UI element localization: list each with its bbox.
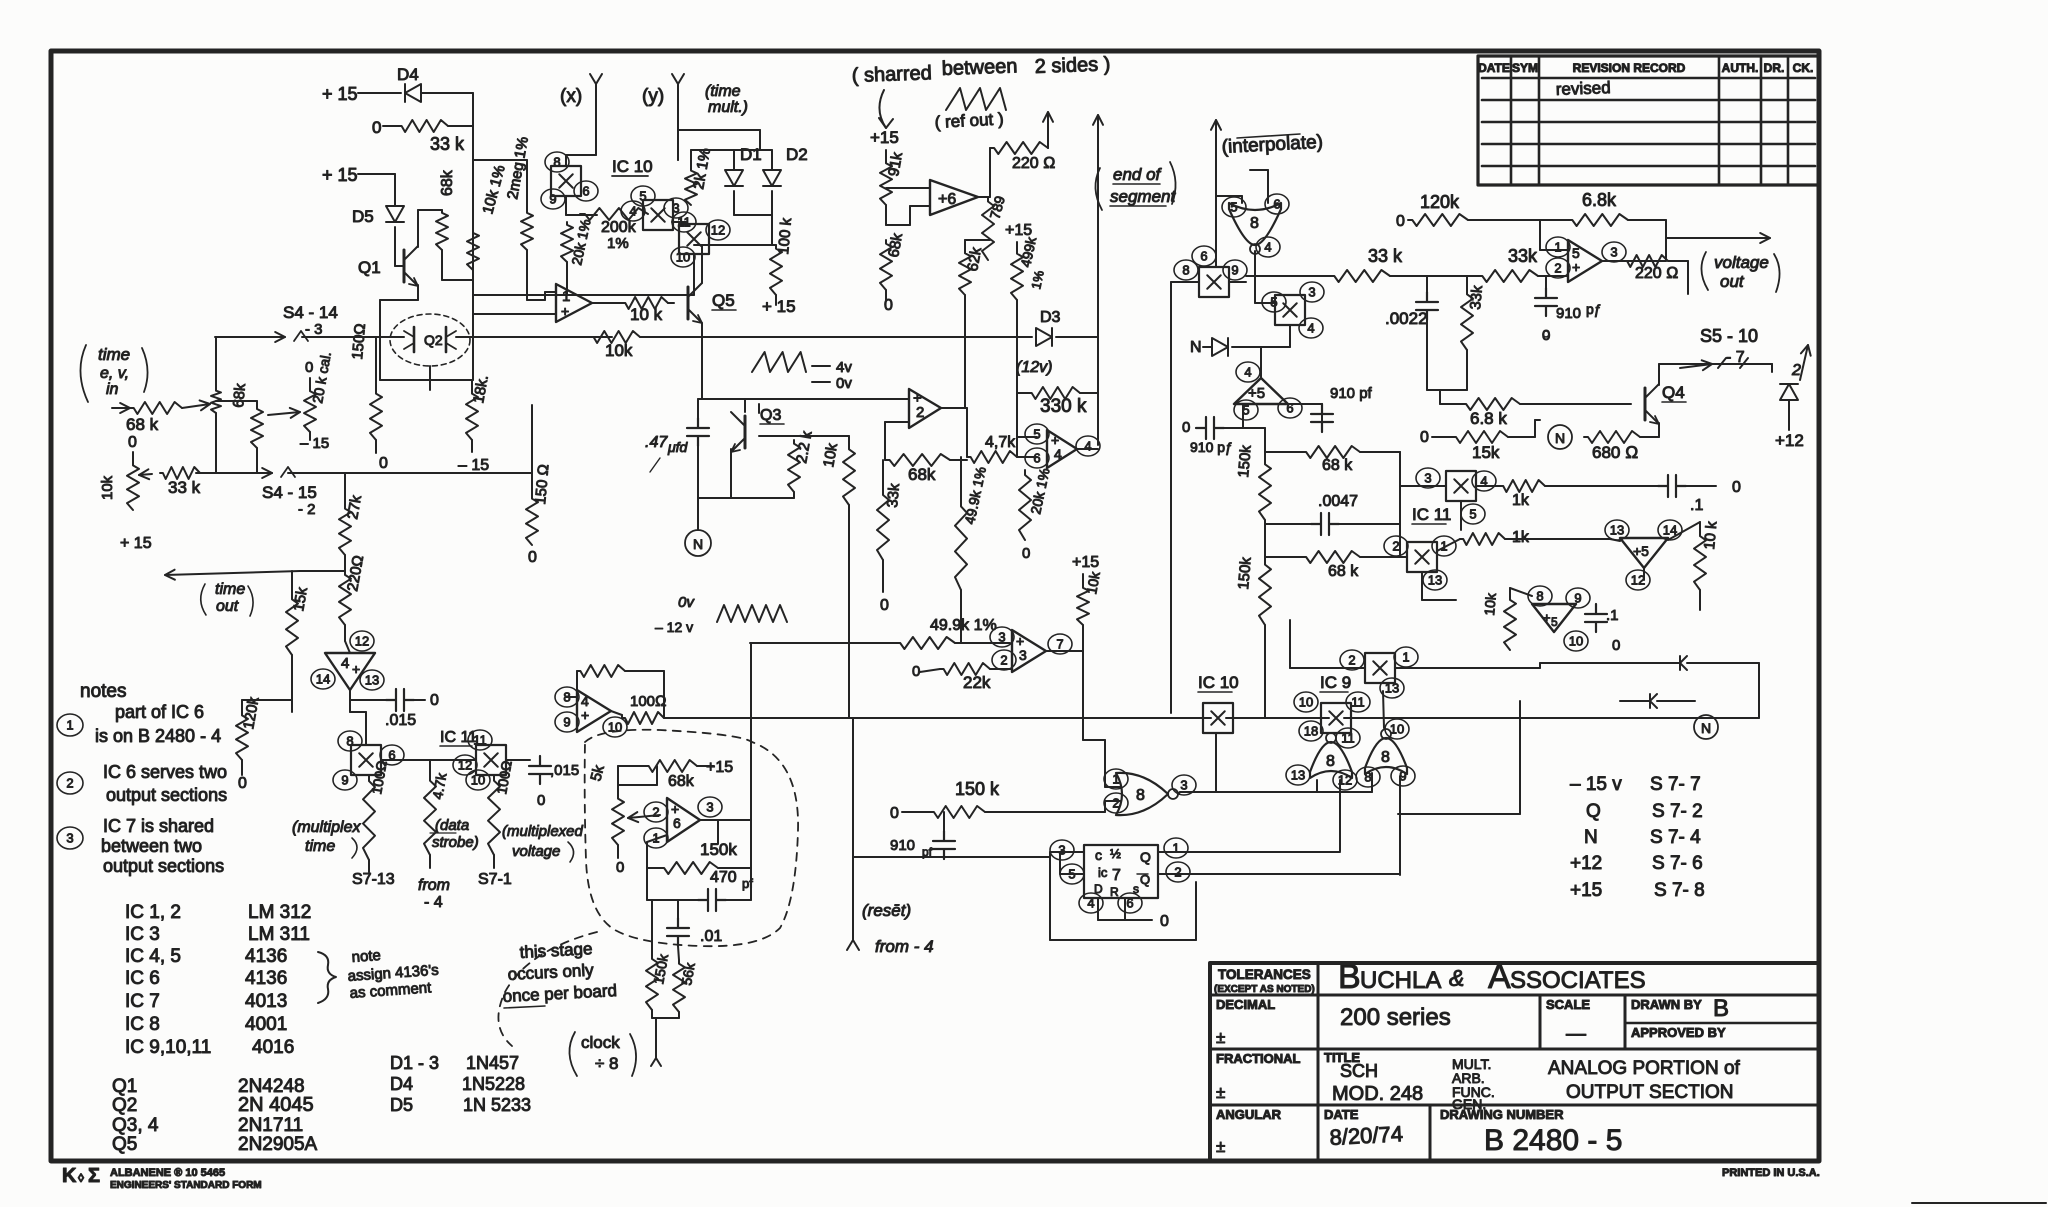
svg-text:pf: pf — [922, 845, 933, 859]
svg-text:+: + — [352, 661, 360, 677]
sawtooth 0v -12v icon — [717, 605, 787, 622]
svg-text:910: 910 — [890, 837, 915, 854]
svg-text:+ 15: + 15 — [322, 165, 358, 185]
svg-text:12: 12 — [711, 223, 725, 238]
svg-text:IC 6 serves two: IC 6 serves two — [103, 762, 227, 782]
cap 910pf (ff) — [933, 831, 955, 859]
svg-text:9: 9 — [563, 715, 570, 730]
svg-text:150 Ω: 150 Ω — [532, 464, 552, 506]
svg-text:÷ 8: ÷ 8 — [595, 1054, 619, 1073]
op-amp +6 (ref) — [930, 180, 978, 215]
svg-text:14: 14 — [316, 672, 330, 687]
svg-text:1k: 1k — [1512, 492, 1530, 509]
svg-text:±: ± — [1216, 1137, 1225, 1156]
svg-text:2: 2 — [1348, 653, 1355, 668]
multiplier box r3 — [1340, 650, 1364, 670]
svg-text:this stage: this stage — [519, 939, 593, 962]
svg-text:910: 910 — [1556, 305, 1581, 322]
resistor 200k 1% — [580, 208, 648, 220]
svg-text:11: 11 — [1341, 731, 1355, 746]
svg-text:LM 311: LM 311 — [248, 924, 310, 945]
sawtooth 4v 0v icon — [752, 352, 806, 372]
wire opamp5 out — [1602, 260, 1666, 262]
wires ic9 box rows — [1460, 501, 1462, 530]
resistor 10k vertical left — [127, 462, 139, 510]
revision record table — [1478, 56, 1818, 185]
svg-text:e, v,: e, v, — [100, 365, 129, 382]
svg-text:10: 10 — [676, 250, 690, 265]
svg-text:2: 2 — [916, 404, 924, 421]
svg-text:4: 4 — [629, 204, 636, 219]
resistor 20k 1pct vertical (mid) — [1019, 470, 1031, 540]
resistor 220ohm vertical — [339, 571, 351, 625]
svg-text:2: 2 — [652, 805, 659, 820]
svg-text:4001: 4001 — [245, 1014, 287, 1035]
svg-text:(EXCEPT AS NOTED): (EXCEPT AS NOTED) — [1214, 984, 1315, 995]
diode D3 on bus — [1036, 328, 1052, 346]
svg-text:1: 1 — [66, 718, 73, 733]
svg-text:mult.): mult.) — [708, 99, 748, 116]
transistor Q5 — [687, 287, 690, 319]
wire X Y to IC10 block — [677, 130, 679, 160]
svg-text:10k: 10k — [605, 341, 633, 360]
svg-text:4136: 4136 — [245, 946, 287, 967]
svg-text:0: 0 — [1420, 429, 1429, 446]
svg-text:out: out — [1720, 272, 1745, 291]
diode D2 — [763, 170, 781, 186]
svg-text:13: 13 — [1428, 573, 1442, 588]
resistor 150ohm vertical (Q2 left) — [370, 390, 382, 440]
nor gate pair a — [1299, 721, 1323, 741]
svg-text:5: 5 — [1551, 615, 1558, 629]
wire bus y399 — [698, 398, 909, 400]
svg-text:1N 5233: 1N 5233 — [463, 1095, 531, 1115]
svg-text:clock: clock — [581, 1033, 620, 1052]
svg-text:S4 - 14: S4 - 14 — [283, 303, 338, 322]
cap .47ufd — [687, 418, 709, 446]
svg-text:( sharred: ( sharred — [851, 62, 932, 87]
svg-text:S 7- 6: S 7- 6 — [1652, 853, 1703, 874]
wire D5 to Q1 — [394, 227, 396, 266]
svg-text:68k: 68k — [668, 773, 695, 790]
svg-text:7: 7 — [1056, 637, 1063, 652]
svg-text:– 15: – 15 — [458, 457, 489, 474]
svg-text:470: 470 — [710, 869, 737, 886]
wire opamp4 to xbox d — [350, 711, 366, 713]
wire Q3 emitter — [758, 404, 760, 413]
svg-text:0: 0 — [912, 663, 920, 680]
svg-text:time: time — [98, 345, 130, 364]
svg-text:IC 11: IC 11 — [440, 729, 477, 746]
svg-text:REVISION RECORD: REVISION RECORD — [1573, 61, 1686, 75]
svg-text:N: N — [1555, 430, 1565, 446]
wire right mesh verticals — [1399, 452, 1401, 557]
svg-text:D2: D2 — [786, 145, 808, 164]
svg-text:6.8k: 6.8k — [1582, 190, 1617, 210]
svg-text:11: 11 — [1351, 695, 1365, 710]
resistor 100ohm vertical e — [488, 775, 500, 855]
resistor 62k vertical — [959, 250, 971, 295]
terminal N (680) — [1548, 425, 1572, 449]
resistor 68k (osc) — [645, 760, 697, 772]
wire +15 to Q1 branch — [358, 173, 395, 175]
svg-text:15k: 15k — [1472, 443, 1500, 462]
svg-text:S4 - 15: S4 - 15 — [262, 483, 317, 502]
svg-text:pƒ: pƒ — [1586, 301, 1602, 317]
svg-text:– 12 v: – 12 v — [655, 619, 693, 635]
svg-text:100Ω: 100Ω — [630, 693, 667, 710]
svg-text:Q: Q — [1586, 801, 1601, 822]
svg-text:is on B 2480 - 4: is on B 2480 - 4 — [95, 726, 221, 746]
svg-text:+5: +5 — [1248, 385, 1265, 402]
svg-text:0: 0 — [890, 805, 899, 822]
svg-text:IC 10: IC 10 — [612, 157, 653, 176]
svg-text:.1: .1 — [1606, 607, 1619, 624]
svg-text:3: 3 — [1019, 647, 1027, 663]
svg-text:4136: 4136 — [245, 968, 287, 989]
svg-text:D3: D3 — [1040, 309, 1061, 326]
arrow up right — [1800, 345, 1808, 380]
svg-text:Q4: Q4 — [1662, 383, 1685, 402]
cap .015 (opamp4) — [350, 699, 390, 701]
svg-text:ANALOG PORTION of: ANALOG PORTION of — [1548, 1058, 1741, 1079]
svg-text:1k: 1k — [1512, 529, 1530, 546]
wire D1 D2 join — [733, 191, 735, 215]
svg-text:0: 0 — [616, 859, 624, 876]
power +15 below 100k — [775, 295, 777, 305]
svg-text:33 k: 33 k — [168, 478, 201, 497]
svg-text:2N1711: 2N1711 — [238, 1115, 303, 1136]
op-amp 2 — [909, 389, 941, 428]
svg-text:IC 9: IC 9 — [1320, 673, 1351, 692]
op-amp 4 (mid) — [1025, 424, 1049, 444]
arrow from note — [879, 90, 886, 128]
wire mid verticals — [1097, 337, 1099, 445]
wire opamp4 out down — [349, 690, 351, 712]
resistor 68k (opamp2) — [885, 454, 950, 466]
wire block top rail — [565, 155, 567, 166]
wire D4 to vertical — [358, 92, 401, 94]
multiplier box r2 — [1384, 536, 1408, 556]
svg-text:68 k: 68 k — [1328, 563, 1359, 580]
terminal N right — [1694, 715, 1718, 739]
svg-text:S 7- 8: S 7- 8 — [1654, 880, 1705, 901]
multiplier box mid — [1262, 292, 1286, 312]
svg-text:+: + — [561, 303, 569, 319]
svg-text:0: 0 — [1160, 913, 1169, 930]
svg-text:Q2: Q2 — [112, 1095, 137, 1116]
svg-text:&: & — [1449, 965, 1464, 991]
transistor Q3 — [744, 416, 747, 448]
wire gate-b input down to FF Qbar — [1399, 776, 1401, 875]
svg-text:3: 3 — [1424, 471, 1431, 486]
svg-text:S7-1: S7-1 — [478, 871, 512, 888]
svg-text:150Ω: 150Ω — [349, 323, 369, 361]
svg-text:PRINTED IN U.S.A.: PRINTED IN U.S.A. — [1722, 1167, 1820, 1179]
svg-text:DR.: DR. — [1764, 61, 1785, 75]
svg-text:+: + — [1543, 610, 1551, 625]
resistor 33k vertical (opamp2) — [877, 490, 889, 560]
svg-text:SCALE: SCALE — [1546, 997, 1590, 1012]
wire xbox d to xbox e — [381, 759, 476, 761]
svg-text:8: 8 — [1326, 753, 1335, 770]
note 3 — [57, 827, 83, 849]
op-amp +5 small — [1528, 586, 1552, 606]
resistor 10k 1% vertical — [472, 126, 474, 160]
resistor 2meg 1% vertical — [526, 160, 528, 210]
svg-text:1: 1 — [1172, 841, 1179, 856]
svg-text:(12v): (12v) — [1016, 359, 1052, 376]
multiplier IC10 box c — [679, 224, 709, 254]
svg-text:(multiplexed: (multiplexed — [502, 823, 584, 840]
resistor 220 (ref out) — [978, 196, 990, 198]
resistor 49.9k 1pct vertical — [955, 500, 967, 590]
svg-text:IC 7: IC 7 — [125, 991, 160, 1012]
svg-text:2: 2 — [1392, 539, 1399, 554]
svg-text:(time: (time — [705, 83, 741, 100]
svg-text:0: 0 — [305, 359, 313, 376]
svg-text:4016: 4016 — [252, 1037, 294, 1058]
svg-text:K: K — [62, 1165, 77, 1187]
svg-text:.01: .01 — [700, 928, 722, 945]
svg-text:B: B — [1713, 995, 1729, 1022]
resistor 150k vertical a — [1259, 460, 1271, 520]
svg-text:2N 4045: 2N 4045 — [238, 1094, 314, 1116]
svg-text:150 k: 150 k — [955, 779, 1000, 799]
svg-text:.0047: .0047 — [1318, 493, 1358, 510]
X antenna — [590, 74, 602, 100]
resistor 1k r1 — [1500, 480, 1545, 492]
svg-text:ANGULAR: ANGULAR — [1216, 1107, 1282, 1122]
svg-text:3: 3 — [998, 630, 1005, 645]
svg-text:2: 2 — [1554, 261, 1561, 276]
svg-text:note: note — [351, 947, 381, 966]
svg-text:3: 3 — [706, 800, 713, 815]
svg-text:10: 10 — [1390, 722, 1404, 737]
op-amp 6 (osc) — [644, 802, 668, 822]
wire S4-15 right to 150ohm — [531, 405, 533, 495]
svg-text:68k: 68k — [908, 465, 936, 484]
svg-text:6: 6 — [1200, 249, 1207, 264]
svg-text:33 k: 33 k — [430, 134, 465, 154]
svg-text:DRAWN BY: DRAWN BY — [1631, 997, 1702, 1012]
resistor 27k vertical — [344, 473, 346, 505]
wire Q1 collector/emitter — [417, 210, 419, 247]
svg-text:3: 3 — [66, 831, 73, 846]
svg-text:B: B — [1338, 958, 1361, 996]
from -4 terminal — [429, 855, 431, 868]
svg-text:in: in — [106, 381, 119, 398]
svg-text:100 k: 100 k — [775, 217, 795, 256]
resistor 68k vertical (ref) — [880, 240, 892, 290]
svg-text:– 15 v: – 15 v — [1570, 774, 1622, 795]
resistor 10k vertical (Q3) — [794, 435, 849, 437]
svg-text:13: 13 — [1385, 681, 1399, 696]
svg-text:+12: +12 — [1775, 431, 1804, 450]
svg-text:Q: Q — [1140, 849, 1151, 865]
svg-text:SCH: SCH — [1340, 1061, 1378, 1081]
svg-text:(multiplex: (multiplex — [292, 819, 361, 836]
svg-text:Q1: Q1 — [358, 258, 381, 277]
resistor 68k b — [1302, 446, 1360, 458]
svg-text:12: 12 — [355, 634, 369, 649]
svg-text:8: 8 — [1136, 787, 1145, 804]
svg-text:½: ½ — [1110, 846, 1121, 861]
resistor 150k vertical b — [1259, 560, 1271, 625]
svg-text:time: time — [215, 581, 245, 598]
resistor 4.7k vertical — [429, 760, 431, 775]
svg-text:0: 0 — [238, 775, 247, 792]
svg-text:.1: .1 — [1690, 497, 1703, 514]
svg-text:330 k: 330 k — [1040, 396, 1087, 417]
svg-text:4v: 4v — [836, 359, 852, 376]
resistor 6.8k (Q4) — [1462, 398, 1520, 410]
svg-text:Q5: Q5 — [712, 291, 735, 310]
reset vertical from -4 — [852, 718, 854, 940]
transistor Q1 — [403, 250, 406, 282]
page border frame — [51, 51, 1819, 1161]
svg-text:10k: 10k — [99, 475, 116, 500]
wire box c to 100k — [709, 244, 776, 246]
multiplier IC11 box e — [476, 745, 506, 775]
wires nor pair stems — [1383, 691, 1384, 728]
svg-text:TOLERANCES: TOLERANCES — [1218, 967, 1311, 982]
svg-text:IC 6: IC 6 — [125, 968, 160, 989]
svg-text:220 Ω: 220 Ω — [1635, 265, 1678, 282]
svg-text:33 k: 33 k — [1368, 246, 1403, 266]
svg-text:4: 4 — [1087, 896, 1094, 911]
svg-text:+6: +6 — [938, 191, 956, 208]
svg-text:+15: +15 — [706, 759, 733, 776]
multiplier box r1 — [1416, 468, 1440, 488]
resistor 68k c — [1302, 551, 1360, 563]
ff bottom wires — [1097, 898, 1099, 920]
svg-text:(resēt): (resēt) — [862, 901, 911, 920]
svg-text:6: 6 — [673, 815, 681, 831]
svg-text:5: 5 — [1033, 427, 1040, 442]
svg-text:49.9k 1%: 49.9k 1% — [930, 617, 997, 634]
svg-text:5: 5 — [1469, 507, 1476, 522]
wire y857 to ff — [853, 856, 1050, 858]
svg-text:150k: 150k — [700, 840, 737, 859]
svg-text:2: 2 — [1174, 865, 1181, 880]
svg-text:910 pƒ: 910 pƒ — [1190, 439, 1233, 455]
resistor 18k vertical — [466, 390, 478, 440]
svg-text:910 pf: 910 pf — [1330, 385, 1373, 402]
flip-flop IC7 — [1084, 845, 1158, 898]
resistor 10k (osc opamp) — [577, 665, 625, 677]
svg-text:4: 4 — [1264, 240, 1271, 255]
dashed stage outline — [585, 730, 798, 946]
svg-text:150k: 150k — [1235, 444, 1255, 478]
svg-text:9: 9 — [1231, 263, 1238, 278]
svg-text:6: 6 — [1033, 451, 1040, 466]
resistor 1k r2 — [1460, 533, 1505, 545]
svg-text:3: 3 — [1180, 778, 1187, 793]
main bus y718 — [664, 717, 1211, 719]
svg-text:APPROVED BY: APPROVED BY — [1631, 1025, 1726, 1040]
cap .1 small — [1585, 604, 1607, 632]
svg-text:0: 0 — [528, 549, 537, 566]
svg-text:+12: +12 — [1570, 853, 1602, 874]
switch arrows S5 — [1680, 364, 1712, 368]
wire 27k to opamp4 — [300, 570, 345, 572]
resistor 33k to S4-15 — [139, 474, 152, 475]
svg-text:,015: ,015 — [550, 762, 579, 779]
brace and note for 4136s — [318, 952, 336, 1003]
svg-text:(x): (x) — [560, 86, 582, 107]
svg-text:18: 18 — [1304, 724, 1318, 739]
svg-text:2: 2 — [1791, 362, 1801, 379]
svg-text:SYM: SYM — [1512, 61, 1538, 75]
svg-text:220 Ω: 220 Ω — [1012, 155, 1055, 172]
svg-text:3: 3 — [1308, 285, 1315, 300]
wire vertical x751 — [750, 643, 752, 900]
svg-text:N: N — [1190, 339, 1202, 356]
multiplier box (interp) — [1174, 260, 1198, 280]
svg-text:A: A — [1488, 958, 1511, 996]
svg-text:5: 5 — [639, 189, 646, 204]
multiplier box IC10 bottom — [1203, 703, 1233, 733]
svg-text:SSOCIATES: SSOCIATES — [1510, 967, 1646, 994]
svg-text:1%: 1% — [607, 235, 629, 252]
corner mark — [1912, 1202, 2046, 1204]
svg-text:c: c — [1095, 847, 1102, 863]
svg-text:33k: 33k — [1508, 246, 1538, 266]
op-amp 1 — [556, 284, 592, 322]
svg-text:0: 0 — [1182, 419, 1190, 436]
multiplier box IC9 — [1294, 692, 1318, 712]
svg-text:11: 11 — [677, 215, 691, 230]
svg-text:1: 1 — [1554, 240, 1561, 255]
wire Q2 to right bus y=337 — [456, 336, 612, 338]
wire r mesh — [1610, 539, 1620, 541]
svg-text:3: 3 — [1610, 245, 1617, 260]
svg-text:0: 0 — [430, 692, 439, 709]
resistor 33k vertical (vout) — [1461, 290, 1473, 350]
svg-text:6: 6 — [1286, 401, 1293, 416]
svg-text:8: 8 — [553, 155, 560, 170]
svg-text:output sections: output sections — [106, 785, 227, 805]
svg-text:Q5: Q5 — [112, 1134, 137, 1155]
svg-text:D1: D1 — [740, 145, 762, 164]
wire opamp6 out — [700, 819, 718, 821]
S7-1 terminal — [493, 855, 495, 868]
svg-text:2: 2 — [1000, 653, 1007, 668]
cap .0022 — [1416, 292, 1438, 320]
svg-text:0: 0 — [1732, 479, 1741, 496]
svg-text:pf: pf — [742, 876, 753, 891]
svg-text:68k: 68k — [439, 169, 456, 196]
svg-text:—: — — [1566, 1023, 1586, 1045]
op-amp +5 (interp) — [1236, 362, 1260, 382]
svg-text:D4: D4 — [397, 65, 419, 84]
svg-text:from - 4: from - 4 — [875, 937, 934, 956]
svg-text:9: 9 — [549, 192, 556, 207]
svg-text:0: 0 — [1022, 545, 1030, 562]
cap .0047 — [1311, 513, 1339, 535]
resistor 91k vertical — [880, 160, 892, 205]
svg-text:.47: .47 — [645, 434, 668, 451]
svg-text:2N2905A: 2N2905A — [238, 1134, 318, 1155]
svg-text:680 Ω: 680 Ω — [1592, 443, 1638, 462]
svg-text:S 7- 2: S 7- 2 — [1652, 801, 1703, 822]
wire ic10 stem to reset line — [1215, 733, 1217, 792]
svg-text:IC 3: IC 3 — [125, 924, 160, 945]
svg-text:+ 15: + 15 — [762, 297, 796, 316]
svg-text:10: 10 — [1569, 634, 1583, 649]
cap .015 e — [506, 759, 530, 761]
